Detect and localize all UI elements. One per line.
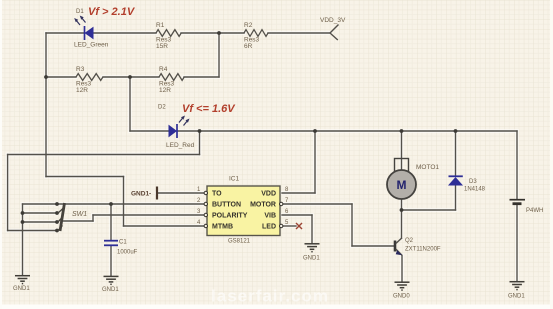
wire diode D3 top [455,131,457,176]
svg-text:C1: C1 [119,240,127,246]
svg-text:LED_Green: LED_Green [74,42,109,49]
svg-text:12R: 12R [76,87,88,94]
svg-text:GND1: GND1 [303,256,320,262]
svg-text:R1: R1 [156,22,165,29]
svg-text:BUTTON: BUTTON [212,202,241,209]
svg-text:1N4148: 1N4148 [464,187,486,193]
svg-text:R3: R3 [76,66,85,73]
wire C1 top [110,204,112,240]
svg-text:6R: 6R [244,43,253,50]
wire second rail R4 to vertical [184,76,219,78]
wire motor to diode bottom rail [402,209,456,211]
wire GND1 port to IC pin 1 [157,192,205,194]
svg-text:MTMB: MTMB [212,224,233,231]
wire vertical x=312 down to ground [311,215,313,244]
wire motor top feed [401,131,403,172]
svg-text:GND0: GND0 [393,294,410,300]
wire vertical x=123.5 down to pin 4 [123,177,125,227]
svg-text:VDD_3V: VDD_3V [320,17,346,24]
wire switch bottom contact feed [8,230,57,232]
svg-text:TO: TO [212,191,222,198]
wire horizontal y=176.5 to pin4 drop [46,176,124,178]
svg-text:M: M [397,178,407,192]
wire IC pin 7 MOTOR out [282,203,352,205]
op IC U1 GS8121 [197,176,289,245]
power port VDD_3V [330,25,339,41]
wire switch row2 [23,212,58,214]
svg-text:12R: 12R [159,87,171,94]
node junction (401.5,210) [400,208,404,212]
svg-text:VIB: VIB [264,213,276,220]
svg-text:D3: D3 [469,179,477,185]
wire IC pin 5 stub [282,225,296,227]
wire step up to pin3 level [92,215,94,221]
wire switch row1 to junction [23,203,112,205]
wire switch left vertical to ground [22,204,24,276]
wire Q2 collector [401,210,403,238]
svg-text:15R: 15R [156,43,168,50]
wire top rail R1 to R2 [181,32,244,34]
wire vertical x=315 up to VDD rail [314,131,316,193]
svg-text:IC1: IC1 [229,176,240,183]
switch SW1 [21,202,88,232]
resistor R1 [156,30,181,37]
svg-text:MOTOR: MOTOR [250,202,276,209]
node junction (219,33) [217,31,221,35]
resistor R4 [159,74,184,81]
wire vertical x=7.6 [7,155,9,231]
wire top rail left of LED D1 [46,32,84,34]
node junction (401.5,131) [400,129,404,133]
battery P4WH [510,200,544,214]
wire to Q2 base [352,245,394,247]
wire switch output lower segment [63,220,93,222]
wire into IC pin 3 [93,214,205,216]
wire LED_Red rail left [130,130,168,132]
node junction (46,77) [44,75,48,79]
LED D2 LED_Red [158,105,195,150]
svg-text:MOTO1: MOTO1 [416,164,439,171]
node junction (199.5,131) [198,129,202,133]
capacitor C1 [104,240,138,256]
transistor Q2 [395,238,441,256]
svg-text:D2: D2 [158,105,166,111]
ground GND1 (switch) [15,276,30,284]
LED D1 LED_Green [74,9,109,49]
svg-text:R4: R4 [159,66,168,73]
node junction (315,131) [313,129,317,133]
wire top rail D1 to R1 [94,32,157,34]
wire left vertical x=46 [45,33,47,177]
wire LED_Red rail right (VDD rail) [177,130,517,132]
wire second rail left segment [46,76,76,78]
resistor R2 [244,30,268,37]
wire vertical x=130 down to LED_Red rail [129,77,131,131]
wire rail y=154.5 [8,154,200,156]
no-connect X on pin 5 [296,223,302,229]
wire IC pin 6 to ground [282,214,312,216]
svg-text:POLARITY: POLARITY [212,213,248,220]
resistor R3 [76,74,103,81]
svg-text:VDD: VDD [261,191,276,198]
motor MOTO1 [387,159,439,200]
wire vertical x=219 joining rails [218,33,220,77]
wire top rail R2 to VDD port [268,32,330,34]
svg-text:LED: LED [262,224,276,231]
svg-text:GND1: GND1 [508,294,525,300]
svg-text:GS8121: GS8121 [228,239,251,245]
wire into IC pin 4 [124,225,206,227]
wire vertical from node at x=199.5 [199,131,201,155]
svg-text:ZXT11N200F: ZXT11N200F [405,247,441,253]
svg-text:Vf > 2.1V: Vf > 2.1V [88,6,136,18]
wire motor bottom [401,197,403,210]
wire second rail R3 to R4 [103,76,159,78]
svg-text:GND1: GND1 [102,287,119,293]
svg-text:Q2: Q2 [405,238,414,244]
node junction (130,77) [128,75,132,79]
wire IC pin 8 to VDD rail [282,192,315,194]
svg-text:SW1: SW1 [72,211,87,218]
power port GND1 at pin 1 [131,187,157,200]
wire C1 bottom to ground [110,246,112,276]
svg-text:Vf <= 1.6V: Vf <= 1.6V [182,103,236,115]
wire switch row3 [23,221,58,223]
wire battery top [516,131,518,199]
svg-text:LED_Red: LED_Red [166,142,195,149]
svg-text:R2: R2 [244,22,253,29]
ground GND0 (Q2 emitter) [395,282,410,290]
wire battery bottom to ground [516,205,518,282]
wire junction to IC pin 2 [111,203,205,205]
svg-text:1000uF: 1000uF [117,250,138,256]
svg-text:D1: D1 [76,9,84,15]
ground GND1 (C1) [104,276,119,284]
node junction (111,204) [109,202,113,206]
svg-text:P4WH: P4WH [526,208,543,214]
svg-text:GND1-: GND1- [131,191,151,198]
wire diode D3 bottom [455,186,457,211]
svg-text:laserfair.com: laserfair.com [211,287,329,306]
diode D3 1N4148 [448,176,486,192]
wire Q2 emitter to ground [401,256,403,283]
wire vertical x=352 down [351,204,353,246]
node junction (455.5,131) [454,129,458,133]
svg-text:GND1: GND1 [13,286,30,292]
page margins [0,305,553,309]
ground GND1 (pin 6) [305,244,320,252]
ground GND1 (battery) [510,282,525,290]
